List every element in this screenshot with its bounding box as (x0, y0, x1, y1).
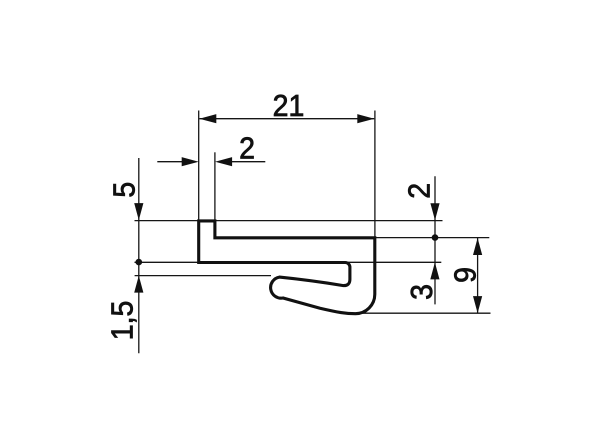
svg-text:3: 3 (405, 284, 439, 300)
svg-text:9: 9 (448, 267, 482, 283)
svg-text:1,5: 1,5 (105, 301, 139, 341)
svg-text:5: 5 (107, 182, 141, 198)
svg-text:2: 2 (403, 183, 437, 199)
svg-text:2: 2 (239, 131, 255, 165)
svg-text:21: 21 (273, 89, 305, 123)
